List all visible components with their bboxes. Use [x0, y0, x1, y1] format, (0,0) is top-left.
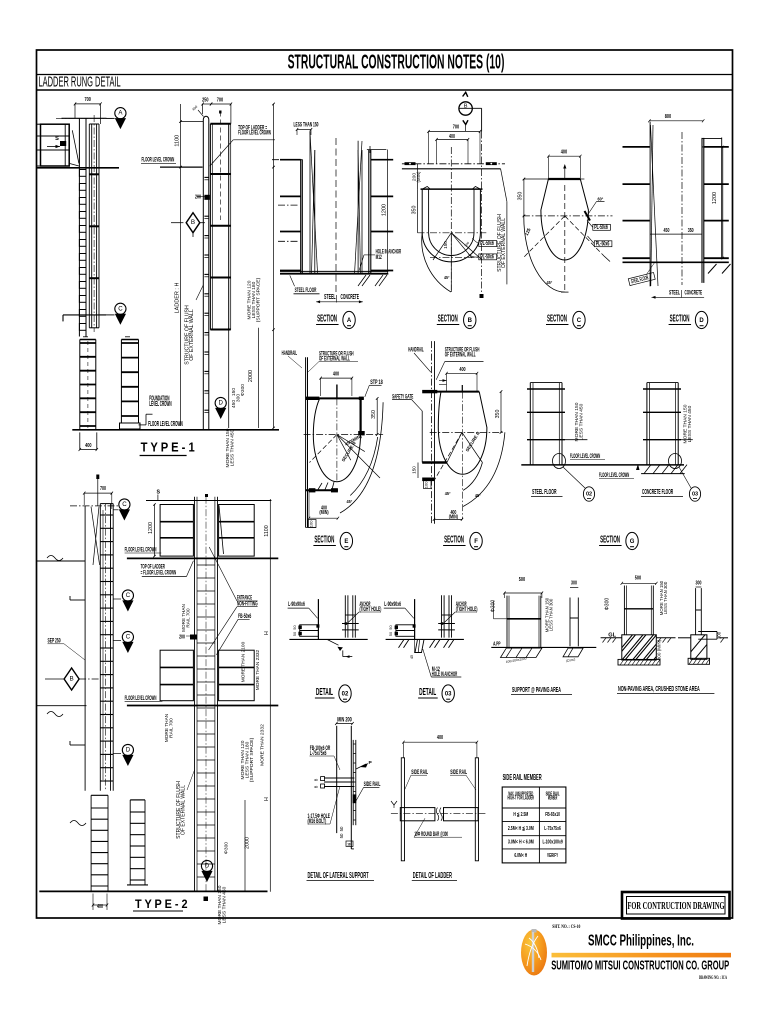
- vertical angle member: [317, 599, 319, 639]
- for construction drawing stamp: [622, 892, 730, 919]
- svg-text:LESS THAN 450: LESS THAN 450: [230, 429, 236, 466]
- section E top plate: [317, 397, 364, 399]
- svg-text:OF EXTERNAL WALL: OF EXTERNAL WALL: [501, 218, 507, 268]
- section A diagonal hatches below floor: [358, 275, 366, 286]
- channel splice marks: [89, 173, 99, 175]
- svg-text:FLOOR LEVEL CROWN: FLOOR LEVEL CROWN: [570, 453, 600, 460]
- svg-text:HANDRAIL: HANDRAIL: [408, 347, 423, 354]
- svg-text:1100: 1100: [264, 525, 270, 537]
- type2r top line: [146, 500, 271, 502]
- svg-text:1200: 1200: [148, 522, 154, 534]
- support right small post: [569, 598, 571, 647]
- support rung: [507, 618, 541, 620]
- svg-text:T Y P E - 1: T Y P E - 1: [141, 441, 195, 455]
- section B rung U loop outer: [422, 189, 480, 262]
- svg-text:LEVEL CROWN: LEVEL CROWN: [149, 401, 171, 408]
- svg-text:50: 50: [339, 833, 344, 838]
- svg-text:DRAWING NO. : ICA: DRAWING NO. : ICA: [699, 975, 727, 981]
- svg-text:OF EXTERNAL WALL: OF EXTERNAL WALL: [181, 785, 187, 835]
- svg-text:02: 02: [586, 492, 592, 498]
- anchor ticks: [342, 623, 359, 625]
- section F dim 350 right: [500, 392, 502, 433]
- svg-text:45°: 45°: [444, 275, 450, 280]
- svg-text:(SUPPORT SPACE): (SUPPORT SPACE): [249, 737, 255, 782]
- section B top marker lens: [459, 102, 472, 115]
- svg-text:A: A: [347, 318, 352, 324]
- support bracket: [396, 625, 415, 637]
- svg-text:DETAIL: DETAIL: [419, 687, 436, 698]
- ladder H dim line right: [273, 104, 275, 428]
- svg-text:500: 500: [519, 577, 525, 583]
- ladder detail weld symbol: [391, 801, 397, 805]
- type2r rungs: [197, 564, 215, 566]
- section E bottom plate: [306, 489, 338, 491]
- section F egg outline: [438, 392, 487, 475]
- ground line TYPE-1: [72, 429, 279, 431]
- section E dashdot diagonal: [310, 435, 337, 463]
- svg-text:B: B: [468, 318, 473, 324]
- svg-text:400: 400: [333, 372, 339, 378]
- svg-text:FLOOR LEVEL CROWN: FLOOR LEVEL CROWN: [125, 547, 157, 554]
- svg-text:(MIN): (MIN): [319, 510, 328, 516]
- svg-text:700: 700: [217, 98, 223, 104]
- section marker A: [115, 108, 126, 119]
- section B wall end anchor marks: [405, 162, 416, 165]
- ladder detail rung bar: [400, 808, 435, 821]
- anchor ticks: [438, 623, 455, 625]
- section D right flanges: [704, 146, 729, 148]
- side rail verticals: [441, 595, 443, 637]
- mid ladder side rail below floor: [202, 167, 204, 430]
- ladder detail centerline: [391, 812, 486, 814]
- type2r bottom teardrop: [201, 860, 212, 871]
- section C dashed diagonals: [523, 216, 565, 258]
- svg-text:SUPPORT @ PAVING AREA: SUPPORT @ PAVING AREA: [512, 685, 561, 694]
- section C dim 350 left: [523, 179, 525, 216]
- section A right top: [367, 149, 387, 151]
- svg-text:MIN 200: MIN 200: [337, 717, 352, 724]
- callout circle 03: [689, 487, 700, 501]
- svg-text:MEMBER: MEMBER: [548, 796, 557, 802]
- section F wall vertical dashdot: [431, 341, 433, 524]
- section B dims 200 350: [417, 164, 419, 189]
- TYPE-1 lower cage ladder right: [120, 340, 122, 424]
- svg-text:H: H: [264, 797, 270, 801]
- section marker B diamond: [186, 213, 200, 233]
- lateral 100 box: [346, 841, 353, 846]
- section B leader to structure text: [501, 169, 507, 202]
- svg-text:STEEL: STEEL: [669, 290, 680, 297]
- dim bracket lines lower: [228, 328, 230, 428]
- svg-text:400: 400: [437, 735, 443, 741]
- svg-text:FLOOR LEVEL CROWN: FLOOR LEVEL CROWN: [142, 157, 175, 164]
- svg-text:L-90x90x6: L-90x90x6: [384, 601, 401, 608]
- svg-text:8: 8: [314, 778, 319, 781]
- mid ladder rung ticks: [204, 176, 208, 178]
- svg-text:STEEL: STEEL: [324, 294, 336, 301]
- svg-text:350: 350: [495, 410, 501, 419]
- support ground line: [491, 646, 596, 648]
- type2r H dim right: [269, 499, 271, 892]
- svg-text:D: D: [126, 747, 131, 754]
- support right hatch: [563, 648, 583, 657]
- svg-text:LESS THAN 300: LESS THAN 300: [549, 598, 554, 631]
- type2r entrance leaders: [209, 547, 237, 601]
- section A center dashed line: [335, 138, 337, 292]
- section E wall vertical double line: [305, 357, 307, 527]
- svg-text:PL-50x6: PL-50x6: [594, 225, 608, 231]
- type2 left ladder taper diagonals: [91, 507, 100, 565]
- section D right edge box: [721, 138, 723, 260]
- svg-text:FLOOR LEVEL CROWN: FLOOR LEVEL CROWN: [599, 472, 629, 479]
- TYPE-1 right channel rails: [88, 124, 90, 328]
- section C egg outline: [541, 179, 589, 260]
- table box: [502, 787, 566, 863]
- svg-text:D: D: [205, 863, 210, 870]
- label row divider: [37, 89, 733, 91]
- svg-text:D: D: [218, 400, 223, 407]
- mid floor step line: [63, 314, 106, 316]
- svg-text:GL: GL: [608, 632, 616, 638]
- title bar divider: [37, 74, 733, 76]
- TYPE-1 left ladder rails: [78, 118, 80, 336]
- nonpaving right ground line: [678, 637, 691, 639]
- section A ladder rail verticals: [309, 131, 311, 274]
- svg-text:3.0M< H < 6.0M: 3.0M< H < 6.0M: [508, 840, 534, 846]
- svg-text:T Y P E - 2: T Y P E - 2: [135, 897, 188, 911]
- lateral side rail strip: [352, 740, 354, 825]
- svg-text:250: 250: [202, 98, 208, 104]
- section D right wall: [701, 138, 703, 283]
- section B anchor centerline: [402, 163, 505, 165]
- svg-text:2.5M< H ≦ 3.0M: 2.5M< H ≦ 3.0M: [508, 826, 534, 832]
- section C top plate: [548, 178, 580, 180]
- logo tower: [532, 929, 537, 933]
- TYPE-1 left top platform: [41, 124, 70, 166]
- svg-text:LADDER RUNG DETAIL: LADDER RUNG DETAIL: [39, 74, 121, 91]
- svg-text:2000: 2000: [245, 837, 251, 849]
- svg-text:DETAIL: DETAIL: [316, 687, 333, 698]
- svg-text:S: S: [55, 136, 59, 142]
- svg-text:FOR CONTRUCTION DRAWING: FOR CONTRUCTION DRAWING: [628, 901, 725, 912]
- lateral vertical plates: [336, 726, 338, 833]
- svg-text:NON-PAVING AREA, CRUSHED STONE: NON-PAVING AREA, CRUSHED STONE AREA: [618, 684, 700, 693]
- section C center dashed vertical: [564, 185, 566, 292]
- svg-text:400: 400: [459, 367, 465, 373]
- svg-text:SECTION: SECTION: [444, 535, 464, 546]
- section A right flanges: [371, 159, 393, 161]
- section C big radius arc: [524, 217, 565, 293]
- section G right rungs: [643, 388, 681, 390]
- svg-text:700: 700: [100, 486, 106, 492]
- leader line to wall: [196, 285, 203, 300]
- svg-text:700: 700: [453, 125, 459, 131]
- vertical angle member: [414, 599, 416, 639]
- svg-text:1100: 1100: [175, 135, 181, 147]
- nonpaving right base slab: [688, 658, 709, 664]
- svg-text:(SUPPORT SPACE): (SUPPORT SPACE): [256, 277, 262, 322]
- mid ladder capsule rail: [203, 116, 209, 167]
- svg-text:SHT. NO. : CS-10: SHT. NO. : CS-10: [552, 924, 580, 930]
- svg-text:DETAIL OF LADDER: DETAIL OF LADDER: [413, 871, 452, 880]
- callout circle 02: [583, 487, 594, 501]
- type2 diamond B: [64, 668, 79, 690]
- svg-text:SIDE RAIL MEMBER: SIDE RAIL MEMBER: [503, 773, 542, 782]
- svg-text:MORE THAN 2332: MORE THAN 2332: [260, 724, 266, 766]
- svg-text:300 (MIN): 300 (MIN): [656, 639, 661, 660]
- concrete floor hatch: [641, 473, 685, 475]
- svg-text:100: 100: [347, 842, 351, 846]
- type2r main rails: [194, 497, 196, 892]
- section F top plate: [437, 391, 479, 393]
- lateral bolt heads: [321, 777, 325, 781]
- type2 left ladder rungs: [100, 514, 113, 516]
- svg-text:PL-50x6: PL-50x6: [480, 241, 494, 247]
- type2 lower cage ladders: [90, 795, 92, 892]
- PL-50x6 labels: [479, 241, 497, 247]
- svg-text:SECTION: SECTION: [547, 314, 567, 325]
- svg-text:MORE THAN 2100: MORE THAN 2100: [241, 641, 247, 682]
- section A right wall: [368, 150, 370, 274]
- svg-text:CONCRETE: CONCRETE: [685, 290, 703, 297]
- svg-text:8: 8: [314, 785, 319, 788]
- support bracket: [300, 625, 319, 637]
- ground line: [289, 638, 367, 640]
- svg-text:LESS THAN 450: LESS THAN 450: [579, 403, 585, 440]
- section D hatch below floor: [708, 264, 717, 274]
- section marker C lower: [115, 303, 126, 314]
- section F small dim at plate left: [439, 380, 447, 382]
- svg-text:(MIN): (MIN): [416, 171, 421, 182]
- svg-text:45: 45: [410, 655, 414, 659]
- svg-text:E: E: [344, 539, 348, 545]
- svg-text:45°: 45°: [475, 493, 481, 499]
- svg-text:SECTION: SECTION: [670, 314, 690, 325]
- svg-text:350: 350: [371, 410, 377, 419]
- section F dashdot diagonal: [434, 432, 462, 480]
- svg-text:RAIL 700: RAIL 700: [169, 718, 175, 738]
- detail03 45 dim: [414, 640, 416, 653]
- svg-text:300: 300: [571, 580, 577, 586]
- mid ladder support rungs: [210, 173, 230, 175]
- svg-text:OF EXTERNAL WALL: OF EXTERNAL WALL: [189, 309, 195, 361]
- dim 400 bottom: [79, 432, 81, 449]
- nonpaving posts: [623, 586, 625, 636]
- dim 2000 vertical: [257, 328, 259, 428]
- svg-text:LESS THAN 450: LESS THAN 450: [222, 886, 228, 923]
- type2 left horizontal lines: [37, 560, 86, 562]
- type2r small squares: [204, 897, 209, 902]
- svg-text:B: B: [69, 676, 73, 683]
- svg-text:SECTION: SECTION: [600, 535, 620, 546]
- svg-text:CONCRETE: CONCRETE: [341, 294, 360, 301]
- svg-text:6.0M< H: 6.0M< H: [514, 853, 527, 859]
- svg-text:F: F: [474, 539, 478, 545]
- section B wall line: [402, 168, 501, 170]
- section C up arrow in plate box: [564, 166, 566, 179]
- section marker D teardrop: [215, 397, 226, 408]
- nonpaving ground line: [601, 637, 622, 639]
- section D dim 800: [649, 120, 703, 122]
- svg-text:G: G: [630, 539, 635, 545]
- svg-text:FLOOR LEVEL CROWN: FLOOR LEVEL CROWN: [148, 421, 183, 428]
- section A left diagonals: [310, 132, 318, 274]
- section D dim 1200 right: [722, 147, 724, 258]
- svg-text:700: 700: [85, 97, 91, 103]
- section E center dashdot horizontal: [304, 434, 384, 436]
- svg-text:SECTION: SECTION: [314, 535, 334, 546]
- section C PL labels: [593, 224, 611, 230]
- section G right ladder rails: [646, 383, 648, 465]
- type2r diagonal brace: [219, 506, 224, 555]
- svg-text:150: 150: [443, 241, 448, 249]
- svg-text:H ≦ 2.5M: H ≦ 2.5M: [513, 812, 528, 818]
- svg-text:SEP 250: SEP 250: [48, 638, 61, 645]
- section B mid dashdot horizontal: [418, 232, 487, 234]
- type2 ground line: [39, 890, 267, 892]
- svg-text:03: 03: [692, 492, 698, 498]
- svg-text:45°: 45°: [445, 491, 451, 497]
- TYPE-1 lower cage ladder left: [79, 340, 81, 431]
- svg-text:03: 03: [445, 692, 452, 698]
- svg-text:200: 200: [179, 635, 185, 641]
- section B center dashdot vertical: [450, 147, 452, 290]
- svg-text:45°: 45°: [347, 499, 353, 505]
- section B rung top plate: [421, 188, 483, 190]
- svg-text:400: 400: [85, 443, 91, 449]
- nonpaving dim 500: [622, 582, 657, 584]
- detail03 ground hatches: [399, 639, 405, 647]
- section F gate vertical: [421, 411, 423, 463]
- svg-text:350: 350: [412, 206, 418, 215]
- section F arcs: [463, 432, 505, 506]
- lateral bolt lines: [324, 777, 354, 779]
- svg-text:1200: 1200: [381, 204, 387, 216]
- section A left flanges: [272, 159, 302, 161]
- svg-text:PL-50x6: PL-50x6: [480, 255, 494, 261]
- svg-text:LESS THAN 150: LESS THAN 150: [294, 122, 319, 129]
- svg-text:SECTION: SECTION: [438, 314, 458, 325]
- svg-text:C: C: [122, 501, 127, 508]
- nonpaving right foundation: [691, 635, 707, 660]
- svg-text:Φ300: Φ300: [240, 384, 246, 396]
- svg-text:400: 400: [561, 150, 567, 156]
- platform diagonal: [72, 130, 79, 163]
- ladder detail side rails: [401, 758, 404, 861]
- svg-text:SIDE RAIL: SIDE RAIL: [364, 781, 381, 788]
- section D center dashdot: [681, 132, 683, 285]
- section A right rail verticals: [357, 141, 359, 275]
- svg-text:H: H: [264, 631, 270, 635]
- svg-text:Φ300: Φ300: [605, 598, 611, 611]
- svg-text:400: 400: [449, 134, 455, 140]
- section B rung U loop inner: [429, 189, 474, 255]
- svg-text:200: 200: [195, 195, 201, 201]
- svg-text:B: B: [191, 219, 195, 226]
- section D left rail: [649, 122, 651, 287]
- svg-text:S: S: [157, 490, 161, 496]
- sheet frame border: [37, 50, 733, 918]
- ground line: [386, 638, 464, 640]
- section F gate bars: [422, 461, 447, 464]
- type2r mid platforms: [160, 650, 193, 701]
- type2 dim 700: [84, 492, 112, 494]
- svg-text:SMCC Philippines, Inc.: SMCC Philippines, Inc.: [588, 933, 694, 950]
- TYPE-1 left ladder top beam: [62, 117, 107, 119]
- type2 markers right column: [119, 499, 130, 510]
- section D floor line: [623, 261, 729, 263]
- section F dim 400: [447, 372, 478, 374]
- svg-text:02: 02: [342, 692, 349, 698]
- section E center vertical: [336, 385, 338, 399]
- mid ladder rails: [209, 124, 211, 330]
- svg-text:LADDER : H: LADDER : H: [175, 283, 181, 314]
- detail03 anchor bolt parallelogram: [415, 639, 424, 652]
- detail02 load arrow zigzag: [327, 639, 339, 645]
- svg-text:1200: 1200: [712, 192, 718, 204]
- type2r top platforms: [160, 505, 193, 557]
- svg-text:OF EXTERNAL WALL: OF EXTERNAL WALL: [445, 352, 476, 359]
- svg-text:A.PP: A.PP: [493, 642, 501, 648]
- nonpaving right post: [695, 588, 697, 635]
- detail ellipse 03 at base: [669, 454, 682, 469]
- svg-text:DETAIL OF LATERAL SUPPORT: DETAIL OF LATERAL SUPPORT: [308, 871, 369, 880]
- orange bar: [552, 953, 732, 958]
- section A dim 1200: [386, 150, 388, 275]
- support paving hatch parallelogram: [501, 648, 542, 657]
- svg-text:800: 800: [665, 114, 671, 120]
- section B lower dashdot: [430, 256, 479, 258]
- section E right rail thick: [360, 400, 362, 433]
- svg-text:2000: 2000: [248, 370, 254, 382]
- nonpaving rung: [624, 608, 653, 610]
- type2r floor line 1: [127, 557, 278, 559]
- section B dim 400: [437, 139, 469, 141]
- support posts: [506, 596, 508, 648]
- svg-text:HIGH-T FOR LADDER: HIGH-T FOR LADDER: [508, 796, 535, 802]
- mid floor line: [160, 166, 203, 168]
- section C weld tick: [585, 211, 591, 221]
- svg-text:STRUCTURAL CONSTRUCTION NOTES: STRUCTURAL CONSTRUCTION NOTES (10): [288, 52, 505, 74]
- svg-text:D: D: [699, 318, 704, 324]
- nonpaving soil ticks: [603, 638, 607, 643]
- svg-text:HANDRAIL: HANDRAIL: [282, 350, 297, 357]
- section G left rungs: [527, 388, 565, 390]
- dim 1100 left: [180, 104, 182, 426]
- nonpaving right bracket: [698, 631, 717, 633]
- TYPE-1 left ladder dim 700: [75, 103, 101, 105]
- svg-text:L-100x100x9: L-100x100x9: [542, 840, 562, 846]
- svg-text:M12: M12: [376, 254, 382, 261]
- svg-text:500: 500: [635, 576, 641, 582]
- section F diagonals: [447, 432, 462, 462]
- type2 left ladder rails: [84, 506, 86, 791]
- section G floor line: [521, 464, 684, 466]
- section C center dashdot horizontal: [523, 215, 613, 217]
- section E weld ticks above bottom plate: [318, 483, 322, 490]
- svg-text:RAIL 700: RAIL 700: [185, 608, 190, 628]
- svg-text:L-75x75x6: L-75x75x6: [544, 826, 561, 832]
- svg-text:CONCRETE FLOOR: CONCRETE FLOOR: [642, 487, 674, 496]
- section A bottom floor: [280, 270, 388, 272]
- section E dim 100: [309, 520, 317, 528]
- svg-text:300: 300: [696, 580, 702, 586]
- section E dim 350: [376, 398, 378, 434]
- section A left wall: [300, 159, 302, 274]
- svg-text:350: 350: [517, 192, 523, 201]
- svg-text:LESS THAN 300: LESS THAN 300: [663, 581, 668, 614]
- support dim 500: [504, 592, 542, 594]
